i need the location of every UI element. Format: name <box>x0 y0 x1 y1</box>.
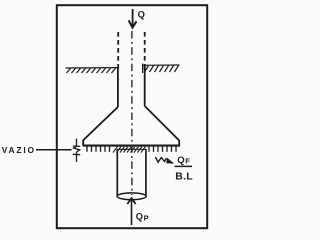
svg-text:P: P <box>144 214 149 223</box>
svg-text:B.L: B.L <box>175 171 193 183</box>
svg-text:VAZIO: VAZIO <box>2 145 36 155</box>
svg-text:Q: Q <box>177 155 184 166</box>
svg-text:Q: Q <box>138 9 145 20</box>
svg-text:Q: Q <box>136 212 143 222</box>
svg-text:F: F <box>185 156 190 165</box>
